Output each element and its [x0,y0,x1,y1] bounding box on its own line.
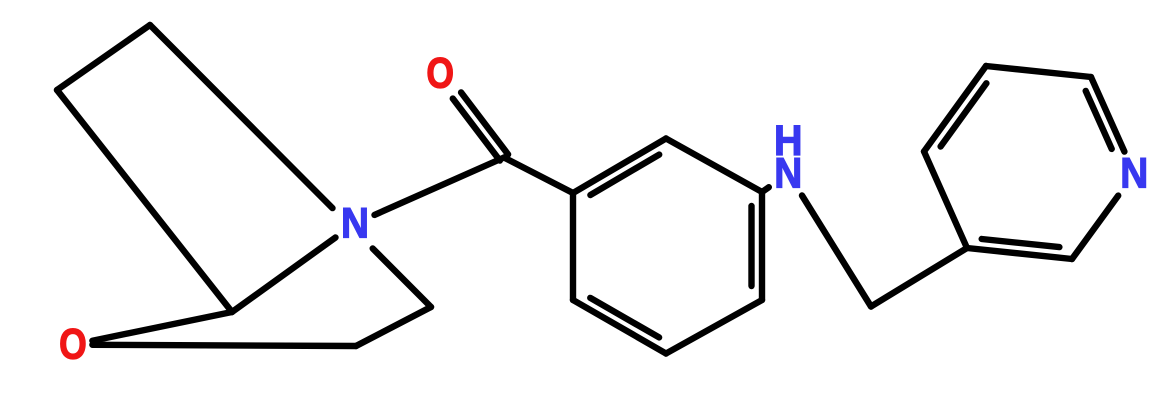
pyridine inner double C4=C5 [941,83,987,146]
benzene inner double-bond line [590,155,659,195]
pyridine inner double C2=C3 [982,239,1060,247]
benzene edge [666,139,762,193]
C=O double bond line [461,92,508,154]
benzene edge [573,139,666,194]
benzene edge [759,192,765,300]
bond C-benzene [504,158,573,194]
svg-text:N: N [774,150,802,198]
pyridine C2-N1 [1072,196,1118,259]
svg-text:N: N [341,200,369,248]
benzene edge [570,193,576,300]
bond (crossing line resumes) to W [373,249,431,308]
pyridine C4-C5 [924,66,986,152]
bond T-M2 (crossing line, to N label gap) [150,25,333,208]
svg-text:O: O [59,321,87,369]
benzene inner double-bond line [590,298,659,338]
pyridine C3-C4 [924,152,967,249]
svg-text:O: O [426,50,454,98]
bond CH2-pyridine C3 [871,248,967,307]
pyridine C6-N1 [1091,77,1124,152]
benzene inner double-bond line [748,206,754,286]
C=O double bond line [453,99,500,161]
benzene edge [573,300,666,354]
svg-text:N: N [1120,150,1148,198]
pyridine inner double N1=C6 [1086,91,1112,149]
bond C(=O)-N [375,158,505,215]
bond NH-CH2 [802,196,871,307]
bond benzene-NH (short stub) [762,187,769,192]
bond U-M1-V1 (collinear pair) [57,90,232,312]
pyridine C3-C2 [967,248,1072,259]
bond N-V1 [232,238,336,313]
bond O-B [92,345,356,346]
benzene edge [666,300,762,354]
bond B-W [356,307,431,346]
bond V1-O [92,312,232,341]
pyridine C5-C6 [986,66,1091,77]
bond T-U [57,25,150,90]
